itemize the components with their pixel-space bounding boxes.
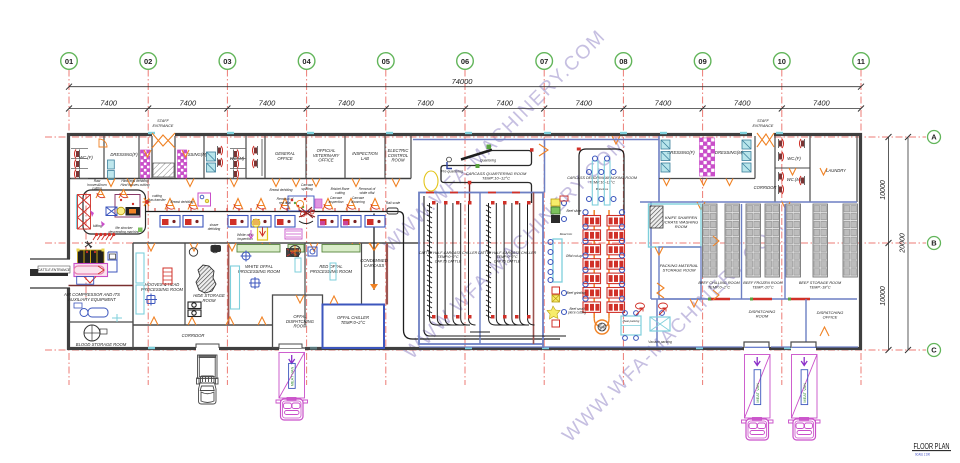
svg-text:7400: 7400 — [496, 99, 514, 108]
svg-text:06: 06 — [461, 57, 469, 66]
svg-text:ROOM: ROOM — [756, 314, 769, 319]
svg-text:dehiding: dehiding — [208, 227, 221, 231]
grid column centerlines 01-11 — [68, 70, 70, 386]
building outer wall — [69, 135, 861, 349]
svg-text:7400: 7400 — [100, 99, 118, 108]
hide pile — [196, 265, 216, 293]
svg-text:CAP.75 CATTLE: CAP.75 CATTLE — [494, 259, 521, 263]
staff entrance 2 gap — [752, 132, 774, 138]
dock recesses — [744, 342, 769, 348]
svg-text:white offal: white offal — [360, 191, 375, 195]
svg-text:7400: 7400 — [417, 99, 435, 108]
knife sharpen room — [649, 204, 702, 247]
svg-text:Hind hooves cutting: Hind hooves cutting — [121, 183, 150, 187]
svg-text:7400: 7400 — [179, 99, 197, 108]
blood storage tank — [84, 325, 100, 341]
splitting saw station — [299, 221, 313, 224]
right block walls — [658, 136, 660, 202]
svg-text:tying: tying — [599, 325, 606, 329]
svg-text:Rail scale: Rail scale — [386, 201, 400, 205]
svg-text:TEMP:-20°C: TEMP:-20°C — [752, 285, 774, 289]
shower stalls — [207, 152, 216, 172]
svg-text:Offal cut-up: Offal cut-up — [566, 254, 583, 258]
svg-text:CORRIDOR: CORRIDOR — [754, 185, 777, 190]
svg-text:Beef grinding: Beef grinding — [567, 291, 586, 295]
tying wheel — [595, 320, 609, 334]
svg-text:LAUNDRY: LAUNDRY — [826, 168, 847, 173]
bay dimension line 7400 x10 — [69, 108, 861, 110]
svg-text:7400: 7400 — [813, 99, 831, 108]
loop stations A-frames — [96, 190, 105, 199]
chiller block walls — [419, 193, 543, 345]
beef room walls — [741, 204, 743, 299]
top band bottom wall — [69, 178, 412, 180]
pallet racks — [703, 204, 718, 277]
right dimension lines 10000/20000 — [888, 137, 890, 350]
offal chute — [258, 218, 268, 240]
svg-text:05: 05 — [382, 57, 390, 66]
svg-text:DRESSING(F): DRESSING(F) — [110, 152, 138, 157]
svg-text:ENTRANCE: ENTRANCE — [753, 124, 774, 128]
svg-text:10000: 10000 — [880, 180, 887, 200]
deboning room walls — [413, 139, 659, 141]
svg-text:CORRIDOR: CORRIDOR — [182, 333, 205, 338]
svg-text:Beef slicer: Beef slicer — [567, 209, 583, 213]
svg-text:SCALE 1:100: SCALE 1:100 — [915, 453, 930, 457]
lairage stun pens — [78, 250, 105, 264]
bottom wall inner blue face — [419, 346, 743, 348]
offal cut-up table — [553, 239, 562, 282]
rail collectors — [437, 324, 530, 326]
hide drums — [188, 302, 201, 317]
quartering rail loop — [441, 151, 532, 204]
svg-text:STORAGE ROOM: STORAGE ROOM — [662, 268, 696, 273]
lockers right block — [700, 138, 715, 176]
meat truck right 1 — [742, 355, 774, 441]
svg-text:AUXILIARY EQUIPMENT: AUXILIARY EQUIPMENT — [67, 297, 116, 302]
dehiding machine cluster — [106, 207, 117, 216]
white offal equipment — [237, 245, 280, 253]
deboning rail loop — [579, 149, 624, 215]
svg-text:blooming: blooming — [351, 200, 365, 204]
offal dispatching / chiller walls — [273, 295, 323, 348]
svg-text:STAFF: STAFF — [757, 119, 769, 123]
black truck — [197, 355, 219, 404]
svg-text:OFFICE: OFFICE — [318, 158, 334, 163]
svg-text:TEMP:-18°C: TEMP:-18°C — [809, 285, 831, 289]
svg-text:BEEF FROZEN ROOM: BEEF FROZEN ROOM — [743, 281, 783, 285]
svg-text:11: 11 — [857, 57, 865, 66]
row bubbles A B C — [928, 131, 941, 144]
top band partition walls — [103, 136, 105, 179]
deboning west wall — [544, 140, 546, 193]
svg-text:PROCESSING ROOM: PROCESSING ROOM — [310, 269, 353, 274]
svg-text:ROOM: ROOM — [675, 224, 688, 229]
svg-text:Breast dehiding: Breast dehiding — [270, 188, 293, 192]
svg-text:7400: 7400 — [734, 99, 752, 108]
door swings top band — [107, 179, 115, 187]
dehiding machine right — [198, 193, 211, 206]
lairage centerline — [85, 192, 87, 300]
packing material storage — [659, 247, 701, 299]
svg-text:09: 09 — [698, 57, 706, 66]
svg-text:OFFICE: OFFICE — [823, 315, 838, 320]
svg-text:TEMP:0~2°C: TEMP:0~2°C — [708, 285, 731, 289]
svg-text:LAB: LAB — [361, 156, 369, 161]
lockers dressing F — [141, 150, 150, 178]
row centerlines A B C — [45, 136, 926, 138]
wc fixtures left — [71, 149, 88, 179]
svg-text:TEMP:10~12°C: TEMP:10~12°C — [482, 176, 510, 181]
svg-text:A: A — [931, 133, 937, 142]
svg-text:7400: 7400 — [259, 99, 277, 108]
svg-text:BLOOD STORAGE ROOM: BLOOD STORAGE ROOM — [76, 342, 127, 347]
svg-text:PROCESSING ROOM: PROCESSING ROOM — [141, 287, 184, 292]
svg-text:ENTRANCE: ENTRANCE — [153, 124, 174, 128]
hoist frame — [108, 252, 117, 272]
cattle entrance ramp — [30, 258, 70, 260]
hooves room equipment — [163, 268, 172, 284]
svg-text:20000: 20000 — [900, 233, 907, 254]
red offal equipment — [322, 245, 360, 253]
svg-text:02: 02 — [144, 57, 152, 66]
svg-text:WC.(F): WC.(F) — [787, 156, 801, 161]
svg-text:TEMP:0~2°C: TEMP:0~2°C — [341, 320, 367, 325]
svg-text:74000: 74000 — [452, 77, 474, 86]
station platforms — [165, 199, 175, 210]
svg-text:DRESSING(M): DRESSING(M) — [715, 150, 744, 155]
rail drops to chillers — [469, 183, 471, 204]
lairage race — [74, 264, 108, 277]
corridor + lairage walls — [133, 242, 420, 244]
svg-text:WC.(F): WC.(F) — [79, 155, 93, 160]
quartering saw — [461, 150, 492, 160]
chiller rails room 2 — [486, 203, 535, 325]
svg-text:10: 10 — [778, 57, 786, 66]
svg-text:killing: killing — [93, 224, 102, 228]
killing hoist truss — [76, 195, 78, 230]
svg-text:cutting: cutting — [335, 191, 345, 195]
svg-text:MEAT VAN: MEAT VAN — [802, 383, 807, 403]
svg-text:Meat packing: Meat packing — [623, 319, 640, 323]
wc fixtures right block — [779, 139, 784, 161]
svg-text:MEAT VAN: MEAT VAN — [755, 383, 760, 403]
svg-text:piece cutting: piece cutting — [567, 311, 586, 315]
svg-text:FLOOR PLAN: FLOOR PLAN — [914, 442, 950, 451]
svg-text:MEAT VAN: MEAT VAN — [290, 367, 295, 387]
dehiding stations — [160, 216, 180, 228]
svg-text:ROOM: ROOM — [293, 324, 307, 329]
dock levelers — [745, 346, 769, 348]
condemned carcass rail — [373, 214, 375, 291]
svg-text:cutting: cutting — [92, 187, 102, 191]
svg-text:ROOM: ROOM — [391, 158, 405, 163]
gas transfer station — [143, 198, 151, 206]
deboning top tables — [592, 161, 598, 205]
svg-text:CATTLE ENTRANCE: CATTLE ENTRANCE — [38, 268, 71, 272]
bleeding box — [115, 195, 140, 218]
meat packing tables — [621, 316, 641, 335]
svg-text:BEEF CHILLING ROOM: BEEF CHILLING ROOM — [698, 281, 740, 285]
killing box loop — [83, 190, 146, 234]
overhead rail — [146, 212, 561, 340]
svg-text:inspection: inspection — [329, 200, 344, 204]
svg-text:Quartering: Quartering — [480, 159, 496, 163]
dispatching rooms — [805, 299, 807, 348]
svg-text:C: C — [931, 346, 937, 355]
svg-text:04: 04 — [302, 57, 311, 66]
svg-text:7400: 7400 — [655, 99, 673, 108]
meat truck right 2 — [789, 355, 821, 441]
svg-text:03: 03 — [223, 57, 231, 66]
svg-text:OFFICE: OFFICE — [277, 156, 293, 161]
svg-text:Vacuum packing: Vacuum packing — [648, 340, 672, 344]
beef grinding boxes — [552, 287, 560, 294]
air compressor tanks — [88, 308, 108, 317]
svg-text:ROOM: ROOM — [202, 298, 216, 303]
svg-text:gas transfer: gas transfer — [148, 198, 166, 202]
svg-text:BEEF STORAGE ROOM: BEEF STORAGE ROOM — [799, 281, 842, 285]
dock gaps bottom wall — [196, 346, 219, 352]
svg-text:Breast dehiding: Breast dehiding — [171, 200, 194, 204]
svg-text:splitting: splitting — [301, 187, 312, 191]
wall joint ticks — [148, 132, 155, 134]
meat truck left — [276, 353, 308, 421]
svg-text:STAFF: STAFF — [157, 119, 169, 123]
svg-text:07: 07 — [540, 57, 548, 66]
beef slicer boxes — [551, 199, 560, 206]
vacuum packing — [650, 317, 670, 331]
svg-text:7400: 7400 — [338, 99, 356, 108]
svg-text:01: 01 — [65, 57, 73, 66]
pre-quartering platform — [447, 157, 452, 162]
beef small piece cutting — [547, 306, 560, 319]
svg-text:PROCESSING ROOM: PROCESSING ROOM — [238, 269, 281, 274]
svg-text:10000: 10000 — [880, 286, 887, 306]
svg-text:Pre-quartering: Pre-quartering — [441, 170, 463, 174]
staff entrance 1 gap — [152, 132, 175, 138]
svg-text:Meat trim: Meat trim — [560, 232, 573, 236]
bleeding arrows — [93, 233, 115, 240]
overall dimension line 74000 — [69, 86, 861, 88]
grid bubbles 01-11 — [61, 53, 78, 70]
corridor doors — [147, 243, 155, 251]
svg-text:7400: 7400 — [575, 99, 593, 108]
transfer symbols — [636, 303, 645, 315]
deboning cutting tables — [583, 216, 601, 227]
svg-text:B: B — [931, 239, 937, 248]
svg-text:08: 08 — [619, 57, 627, 66]
svg-text:CAP.75 CATTLE: CAP.75 CATTLE — [435, 259, 462, 263]
svg-text:red offal: red offal — [279, 201, 291, 205]
svg-text:TEMP:10~12°C: TEMP:10~12°C — [589, 180, 615, 184]
svg-text:DRESSING(F): DRESSING(F) — [667, 150, 695, 155]
deboning conveyors — [593, 210, 595, 318]
chiller rails room 1 — [427, 203, 476, 325]
lockers dressing M — [178, 150, 187, 178]
